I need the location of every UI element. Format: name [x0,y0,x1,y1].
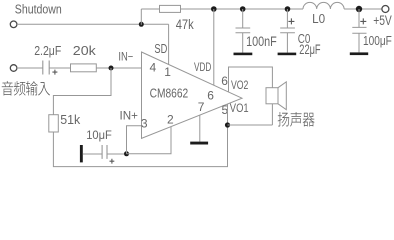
svg-text:100μF: 100μF [363,33,392,48]
speaker LS1 [266,88,278,104]
polarity plus C0 [288,18,294,24]
svg-text:10μF: 10μF [86,128,112,142]
polarity plus 100uF [360,18,366,24]
polarity plus 2.2uF [52,70,57,75]
wire VDD stub down to IC [213,9,215,85]
wire pin7 to ground [199,115,201,142]
svg-text:SD: SD [154,41,167,56]
svg-text:100nF: 100nF [246,33,277,49]
pin 1 [168,24,170,64]
capacitor 100nF [236,9,251,53]
svg-text:51k: 51k [60,112,80,127]
node IN- junction [109,66,114,71]
svg-text:VDD: VDD [194,60,212,74]
wire shutdown horizontal to pin1 stub [17,23,169,25]
node 100nF rail junction [240,6,246,12]
svg-text:3: 3 [141,117,148,131]
wire top rail left segment [141,8,159,10]
wire feedback IN- down-left to 51k [53,68,111,115]
terminal +5V [382,6,389,13]
wire VO2 to speaker [229,67,273,125]
label 扬声器 [278,112,289,126]
capacitor 10uF ground plate [80,145,83,162]
wire pin2 right and up [127,127,172,154]
terminal Shutdown input [10,21,17,28]
ground under 100uF [350,52,368,55]
wire VO1 to speaker bottom [228,124,273,126]
svg-text:20k: 20k [73,43,96,58]
capacitor 10uF [83,145,127,159]
wire top rail right segment [344,8,382,10]
resistor 47k [160,5,181,12]
wire VO1 stub [227,104,229,125]
svg-text:47k: 47k [176,17,194,32]
wire IN+ up and right to pin3 [127,126,142,154]
svg-text:6: 6 [207,89,214,103]
resistor 51k [49,115,59,132]
wire 51k to bottom rail to VO1 [53,125,227,167]
svg-text:IN−: IN− [118,52,133,64]
resistor 20k [71,64,97,72]
capacitor 100uF [352,9,366,52]
node C0 rail junction [285,6,291,12]
svg-text:CM8662: CM8662 [150,86,189,101]
wire 20k to IN- pin4 [96,67,141,69]
svg-text:2.2μF: 2.2μF [34,43,61,58]
inductor L0 [303,2,344,9]
wire top rail middle segment [181,8,304,10]
wire corner up to top rail [140,9,142,25]
svg-text:IN+: IN+ [120,110,139,122]
svg-text:L0: L0 [312,11,325,26]
node VO1 junction [225,122,230,127]
wire input to cap 2.2uF [17,67,43,69]
node bypass junction [124,151,129,156]
svg-text:2: 2 [167,113,174,127]
svg-text:1: 1 [164,65,171,79]
node 100uF rail junction [356,6,362,12]
ground under pin7 [190,142,208,145]
wire cap to 20k [49,67,70,69]
svg-text:7: 7 [198,100,205,114]
terminal audio input [10,65,17,72]
op-amp U1 CM8662 triangle [142,52,243,138]
svg-text:6: 6 [221,74,228,88]
svg-text:22μF: 22μF [299,42,320,57]
capacitor 2.2uF [43,61,49,75]
label 音频输入 [2,81,13,96]
svg-text:Shutdown: Shutdown [15,2,62,17]
svg-text:VO1: VO1 [230,101,249,115]
polarity plus 10uF [110,159,115,164]
node VDD rail junction [211,6,217,12]
svg-text:4: 4 [150,61,157,75]
node shutdown/47k junction [139,22,144,27]
ground under C0 [278,53,297,56]
svg-text:+5V: +5V [373,13,392,28]
ground under 100nF [234,53,253,56]
capacitor C0 22uF [280,9,295,53]
svg-text:VO2: VO2 [231,78,249,92]
